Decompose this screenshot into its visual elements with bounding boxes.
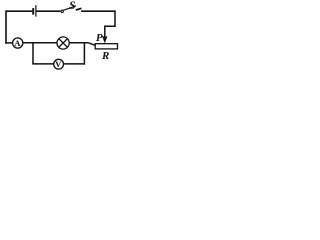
wire ammeter to lamp bbox=[23, 42, 57, 44]
lamp L circle bbox=[57, 37, 69, 49]
svg-text:S: S bbox=[69, 0, 75, 12]
switch S fixed contact bbox=[76, 8, 82, 10]
wire switch to top-right corner bbox=[81, 10, 115, 12]
wire right vertical and jog to slider bbox=[105, 10, 115, 36]
battery negative plate (short thick) bbox=[32, 8, 34, 15]
wire bottom-left to voltmeter bbox=[32, 63, 54, 65]
node junction left (voltmeter tap) bbox=[32, 42, 34, 64]
svg-text:V: V bbox=[55, 59, 62, 69]
node junction right (voltmeter tap) bbox=[83, 42, 85, 64]
ammeter A circle bbox=[13, 38, 23, 48]
wire battery to switch bbox=[37, 10, 61, 12]
wire into ammeter bbox=[5, 42, 12, 44]
svg-text:R: R bbox=[101, 50, 109, 62]
switch S pivot circle bbox=[61, 10, 63, 12]
lamp X cross bbox=[59, 39, 68, 48]
rheostat slider arrowhead bbox=[102, 36, 107, 43]
battery positive plate (long thin) bbox=[35, 5, 36, 17]
rheostat R body box bbox=[95, 44, 117, 49]
wire voltmeter to right vertical bbox=[63, 63, 84, 65]
wire lamp to rheostat bbox=[69, 43, 95, 46]
switch S lever bbox=[64, 6, 76, 10]
voltmeter V circle bbox=[54, 59, 64, 69]
wire top-left horizontal (battery left lead) bbox=[6, 10, 32, 12]
wire left vertical (battery down to ammeter) bbox=[5, 10, 7, 43]
svg-text:P: P bbox=[96, 32, 103, 44]
svg-text:A: A bbox=[14, 38, 21, 48]
